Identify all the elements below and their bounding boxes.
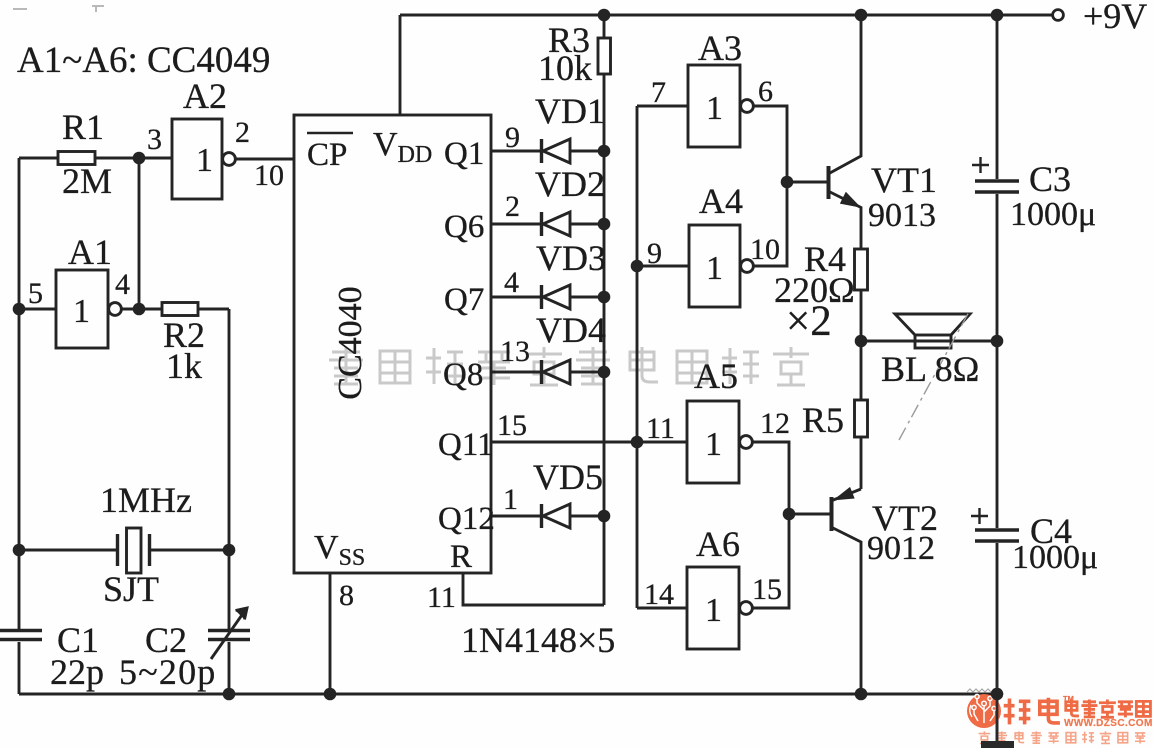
svg-text:10k: 10k	[538, 48, 592, 88]
svg-text:R1: R1	[62, 107, 104, 147]
inverter A4 box	[689, 225, 740, 307]
svg-text:VD3: VD3	[536, 238, 606, 278]
svg-text:A1~A6: CC4049: A1~A6: CC4049	[17, 40, 270, 81]
resistor R2	[162, 303, 198, 316]
svg-text:A4: A4	[699, 181, 743, 221]
node A1 output junction	[133, 303, 146, 316]
node VT1 base junction	[781, 176, 794, 189]
transistor VT1 emitter	[829, 192, 861, 250]
svg-text:VT1: VT1	[871, 160, 937, 200]
svg-text:5: 5	[28, 277, 43, 310]
inverter A4 bubble	[741, 260, 754, 273]
wire A1 input	[19, 308, 56, 311]
wire gate input chain x637	[636, 106, 639, 608]
watermark 杭州将睿科技有限公司	[329, 347, 809, 385]
svg-text:A1: A1	[68, 232, 112, 272]
wire ground bottom rail	[19, 693, 997, 696]
node crystal left junction	[13, 544, 26, 557]
resistor R4	[855, 249, 868, 290]
inverter A1 box	[56, 270, 108, 348]
crystal SJT electrodes	[118, 534, 150, 566]
node Q11 gate chain	[631, 436, 644, 449]
node VD3 bus	[598, 291, 611, 304]
capacitor C3 plus sign	[972, 157, 989, 173]
node VD1 bus	[598, 145, 611, 158]
diode VD5	[540, 504, 543, 528]
node rail right top	[991, 9, 1004, 22]
inverter A2 box	[172, 119, 222, 199]
wire R5 to VT2 emitter	[860, 437, 863, 489]
transistor VT1 collector	[829, 15, 861, 174]
capacitor C1 plates	[0, 631, 42, 640]
CP overline	[307, 132, 353, 134]
wire right rail top	[996, 15, 999, 179]
resistor R3	[598, 38, 611, 74]
svg-text:A5: A5	[694, 356, 738, 396]
svg-text:2M: 2M	[62, 161, 112, 201]
capacitor C4 plates	[975, 530, 1019, 541]
svg-text:13: 13	[500, 335, 530, 368]
svg-text:VD2: VD2	[535, 164, 605, 204]
svg-text:Q8: Q8	[443, 357, 483, 393]
svg-text:1000μ: 1000μ	[1010, 196, 1096, 233]
capacitor C2 plates	[208, 631, 250, 640]
logo ku char	[1040, 698, 1060, 723]
svg-text:2: 2	[505, 190, 520, 223]
wire diode bus x604	[603, 15, 606, 605]
terminal +9V	[1053, 10, 1064, 21]
svg-text:BL 8Ω: BL 8Ω	[881, 349, 979, 389]
svg-text:3: 3	[147, 123, 162, 156]
svg-text:6: 6	[758, 75, 773, 108]
diode VD2	[540, 212, 543, 236]
svg-text:Q6: Q6	[444, 209, 484, 245]
svg-text:1: 1	[705, 592, 722, 629]
svg-text:1: 1	[503, 483, 518, 516]
transistor VT2 base bar	[830, 497, 834, 531]
svg-text:A3: A3	[698, 28, 742, 68]
svg-text:1: 1	[706, 250, 723, 287]
svg-text:VD1: VD1	[535, 91, 605, 131]
logo circle Dzsc	[967, 694, 1001, 728]
node speaker right	[991, 335, 1004, 348]
wire A5 output	[753, 442, 790, 608]
logo shi char	[1099, 699, 1116, 717]
svg-text:Q1: Q1	[444, 136, 484, 172]
scan speck top left	[13, 6, 104, 12]
transistor VT1 emitter arrow	[842, 194, 857, 205]
svg-text:14: 14	[644, 578, 674, 611]
diode VD3	[540, 285, 543, 309]
transistor VT1 base bar	[827, 166, 831, 199]
wire right column below C2	[228, 642, 231, 694]
svg-text:9013: 9013	[868, 197, 936, 234]
wire reset pin 11	[463, 573, 604, 605]
transistor VT2 collector	[832, 528, 861, 695]
svg-text:Q12: Q12	[438, 501, 495, 537]
svg-text:9: 9	[505, 121, 520, 154]
resistor R1	[58, 152, 95, 165]
scan blob bottom	[981, 741, 1014, 748]
capacitor C2 variable arrow	[211, 612, 244, 659]
svg-text:C3: C3	[1029, 159, 1071, 199]
wire top rail +9V	[400, 14, 1053, 17]
scan scribble near ground dot	[967, 689, 991, 692]
wire A1 output to R2	[122, 308, 163, 311]
wire speaker row	[861, 340, 997, 343]
svg-text:Q7: Q7	[444, 282, 484, 318]
svg-text:10: 10	[254, 159, 284, 192]
node ground right rail	[991, 688, 1003, 700]
speaker BL horn	[895, 314, 970, 335]
svg-text:11: 11	[646, 412, 675, 445]
svg-text:A6: A6	[696, 524, 740, 564]
logo slogan row	[979, 731, 1146, 743]
svg-text:1: 1	[705, 426, 722, 463]
svg-text:22p: 22p	[50, 652, 104, 692]
node VT2 collector ground	[855, 688, 868, 701]
logo wei char	[1004, 698, 1031, 724]
wire R1 row	[19, 157, 172, 160]
inverter A1 bubble	[109, 303, 122, 316]
wire VDD drop to CC4040	[399, 15, 402, 115]
logo chang char	[1118, 702, 1133, 718]
svg-text:9012: 9012	[867, 530, 935, 567]
resistor R5	[855, 400, 868, 437]
IC CC4040 box	[294, 115, 491, 573]
diode VD1	[540, 139, 543, 163]
svg-text:1k: 1k	[166, 346, 202, 386]
wire Q8 pin13	[491, 371, 540, 374]
transistor VT2 emitter arrow	[838, 489, 853, 498]
node ground right rail top	[991, 688, 1003, 700]
svg-text:1N4148×5: 1N4148×5	[461, 620, 615, 660]
wire right rail over logo	[996, 680, 999, 743]
node VT2 base junction	[783, 508, 796, 521]
crystal SJT body	[127, 528, 142, 573]
svg-text:R5: R5	[802, 400, 844, 440]
svg-text:9: 9	[647, 237, 662, 270]
svg-text:8: 8	[339, 579, 354, 612]
wire right rail bottom	[996, 543, 999, 743]
wire A2 output to CP	[236, 158, 295, 161]
logo zi char	[1081, 699, 1097, 717]
wire crystal row	[19, 549, 229, 552]
node speaker left	[855, 335, 868, 348]
wire node3 down to node4	[138, 158, 141, 309]
svg-text:1000μ: 1000μ	[1012, 539, 1098, 576]
wire Q11 pin15 to gates	[491, 441, 687, 444]
wire right column x229	[228, 309, 231, 630]
inverter A6 bubble	[740, 602, 753, 615]
wire Q6 pin2	[491, 223, 540, 226]
svg-text:VD4: VD4	[536, 310, 606, 350]
svg-text:12: 12	[760, 407, 790, 440]
inverter A3 bubble	[741, 100, 754, 113]
svg-text:7: 7	[651, 76, 666, 109]
wire Q1 pin9	[491, 150, 540, 153]
wire A3 input	[637, 105, 688, 108]
wire node to R5	[860, 341, 863, 400]
svg-text:2: 2	[235, 116, 250, 149]
svg-text:5~20p: 5~20p	[119, 652, 216, 692]
node A4 input	[631, 260, 644, 273]
svg-text:CC4040: CC4040	[332, 286, 369, 399]
wire R2 to right column	[198, 308, 229, 311]
capacitor C4 plus sign	[971, 508, 988, 524]
svg-text:VD5: VD5	[533, 457, 603, 497]
node crystal right junction	[223, 544, 236, 557]
inverter A2 bubble	[223, 153, 236, 166]
inverter A5 box	[687, 401, 739, 483]
logo wang char	[1136, 701, 1150, 716]
svg-text:4: 4	[115, 268, 130, 301]
wire VSS pin 8	[329, 573, 332, 694]
svg-text:1MHz: 1MHz	[100, 480, 192, 520]
node C2 ground junction	[223, 688, 236, 701]
wire A6 input	[637, 607, 687, 610]
wire A3 output	[754, 106, 788, 266]
wire Q7 pin4	[491, 296, 540, 299]
svg-text:15: 15	[752, 573, 782, 606]
wire R4 to speaker node	[860, 290, 863, 341]
svg-text:+9V: +9V	[1083, 0, 1147, 36]
inverter A6 box	[687, 567, 739, 649]
node VT1 collector rail	[855, 9, 868, 22]
svg-text:A2: A2	[183, 76, 227, 116]
logo circuit sprout	[970, 694, 996, 723]
node bus top rail	[598, 9, 611, 22]
svg-text:1: 1	[706, 90, 723, 127]
svg-text:1: 1	[73, 293, 90, 330]
scan artifact diagonal line	[899, 310, 970, 440]
inverter A3 box	[688, 65, 740, 147]
node VD5 bus	[598, 510, 611, 523]
wire VT2 base	[789, 513, 830, 516]
svg-text:10: 10	[750, 233, 780, 266]
wire right rail mid	[996, 194, 999, 528]
transistor VT2 emitter	[832, 489, 861, 501]
wire Q12 pin1	[491, 515, 540, 518]
svg-text:Q11: Q11	[438, 427, 494, 463]
node R1-A2 junction	[133, 152, 146, 165]
node VSS ground	[324, 688, 337, 701]
wire left column	[18, 158, 21, 630]
wire A4 input	[637, 265, 689, 268]
svg-text:WWW.DZSC.COM: WWW.DZSC.COM	[1064, 718, 1153, 729]
wire left column below C1	[18, 642, 21, 694]
diode VD4	[540, 360, 543, 384]
svg-text:4: 4	[504, 266, 519, 299]
svg-text:R: R	[450, 539, 472, 575]
svg-text:CP: CP	[307, 137, 347, 173]
node VD4 bus	[598, 366, 611, 379]
node A1 input junction	[13, 303, 26, 316]
wire VT1 base	[787, 181, 827, 184]
svg-text:11: 11	[427, 581, 456, 614]
inverter A5 bubble	[740, 436, 753, 449]
svg-text:15: 15	[497, 409, 527, 442]
svg-text:×2: ×2	[786, 298, 832, 345]
svg-text:1: 1	[196, 142, 213, 179]
node VD2 bus	[598, 218, 611, 231]
speaker BL driver	[915, 335, 951, 348]
logo dian char	[1066, 699, 1079, 715]
capacitor C3 plates	[975, 181, 1019, 192]
svg-text:SJT: SJT	[103, 569, 159, 609]
